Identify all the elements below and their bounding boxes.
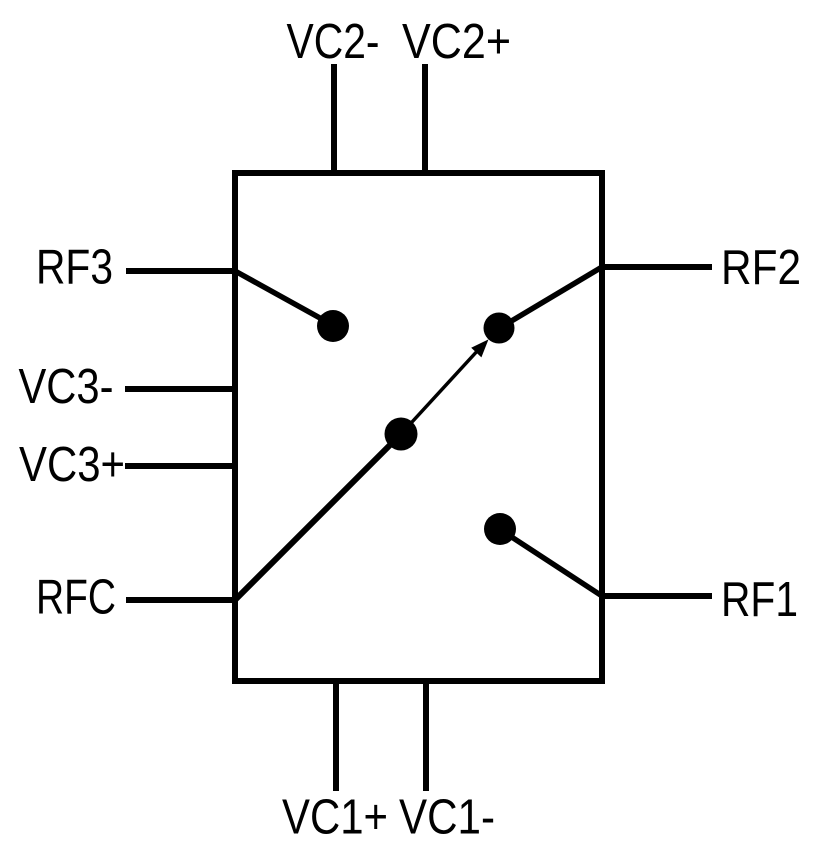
wire RFC pole arm (thick diagonal): [235, 434, 401, 600]
wire pin RF1 (right): [599, 593, 712, 599]
wire pin VC2- (top): [331, 64, 337, 173]
svg-text:VC2+: VC2+: [402, 14, 511, 69]
switch actuation arrowhead: [471, 339, 488, 357]
node RFC pole dot (center): [385, 418, 418, 451]
svg-text:VC3-: VC3-: [19, 359, 114, 414]
svg-text:RF3: RF3: [36, 240, 113, 295]
wire pin VC2+ (top): [422, 64, 428, 173]
svg-text:RF2: RF2: [721, 240, 801, 295]
node RF1 contact dot: [484, 513, 516, 545]
switch body box U1: [235, 173, 602, 681]
wire pin RFC (left): [126, 597, 238, 603]
svg-text:VC3+: VC3+: [19, 437, 125, 492]
wire RF3 throw stub to contact: [235, 271, 329, 323]
svg-text:VC1-: VC1-: [399, 790, 495, 845]
svg-text:RF1: RF1: [721, 572, 798, 627]
node RF2 contact dot: [484, 313, 515, 344]
wire RF2 throw stub to contact: [503, 267, 602, 326]
svg-text:VC2-: VC2-: [287, 14, 380, 69]
wire pin RF3 (left): [126, 268, 238, 274]
wire RF1 throw stub to contact: [504, 532, 602, 596]
node RF3 contact dot: [317, 310, 349, 342]
wire pin VC3- (left): [125, 386, 238, 392]
wire switch actuation arrow shaft: [401, 348, 480, 434]
wire pin VC1+ (bottom): [333, 681, 339, 791]
svg-text:VC1+: VC1+: [282, 790, 388, 845]
wire pin VC3+ (left): [125, 463, 238, 469]
svg-text:RFC: RFC: [36, 570, 116, 625]
wire pin RF2 (right): [599, 264, 712, 270]
wire pin VC1- (bottom): [423, 681, 429, 791]
